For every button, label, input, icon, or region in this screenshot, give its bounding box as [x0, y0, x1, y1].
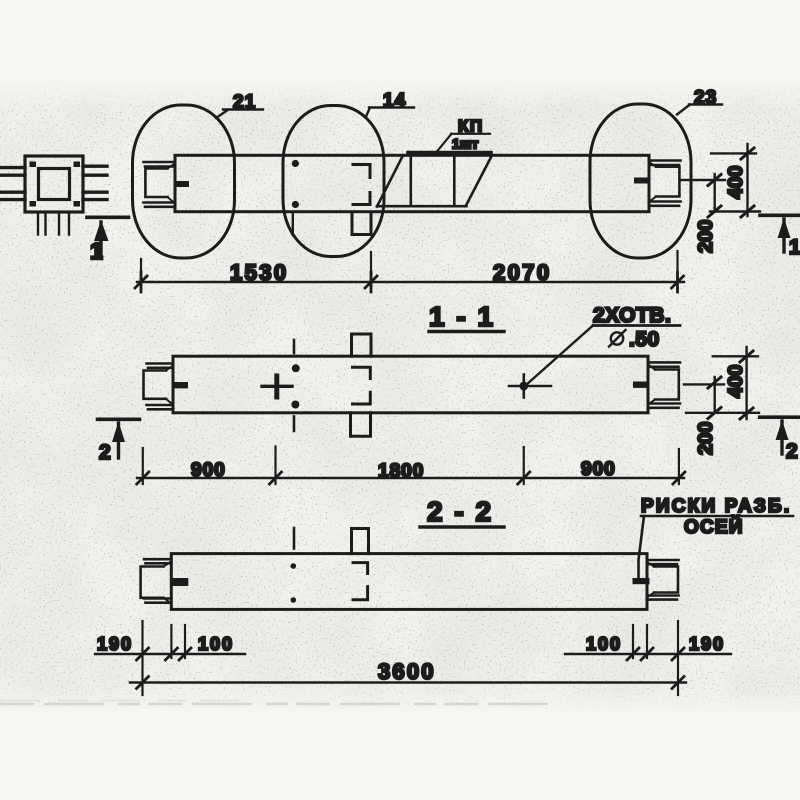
main extension left [141, 621, 143, 695]
svg-text:400: 400 [725, 365, 747, 398]
right riska tick (elevation) [634, 178, 649, 184]
1-1 tick at 678.9 [673, 472, 685, 484]
left lower flange lines [0, 192, 25, 199]
extension under oval21 [140, 259, 142, 288]
1-1 right joint taper lines [648, 365, 655, 405]
1-1 right joint socket [655, 370, 679, 400]
1-1 left riska tick [173, 382, 188, 388]
1-1 right joint flange bottom [648, 404, 680, 408]
section arrow 1 (left) head [94, 220, 109, 241]
dim line 200 (elevation) [714, 174, 716, 212]
svg-text:100: 100 [198, 634, 234, 654]
right joint taper lines [649, 162, 656, 202]
svg-text:2: 2 [786, 440, 798, 463]
upper dim line left segment [95, 653, 245, 655]
1-1 section arrow 2 (left) head [112, 422, 125, 443]
1-1 tick at 142.8 [137, 472, 149, 484]
2-2 left riska tick [171, 578, 188, 586]
svg-text:1800: 1800 [378, 461, 424, 482]
1-1 section cut line 2 (left) [98, 417, 140, 421]
2-2 axis tick above beam [293, 528, 296, 549]
KP flag bar [408, 151, 491, 155]
right joint flange bottom [649, 202, 681, 206]
tick slashes 400 (elevation) [741, 148, 754, 217]
riski leader [639, 516, 645, 577]
svg-text:14: 14 [383, 91, 406, 112]
dim line 3600 [130, 681, 686, 683]
1-1 axis tick above beam [293, 340, 296, 353]
1-1 dashed embed bracket [353, 367, 371, 404]
extension top (400) [711, 152, 756, 154]
1-1 right joint flange top [648, 362, 680, 366]
1-1 tick at 275.5 [270, 472, 282, 484]
1-1 bottom dim line [137, 477, 684, 479]
1-1 lifting loop below [351, 413, 371, 437]
svg-text:190: 190 [689, 634, 725, 654]
section arrow 1 (right) shaft [782, 219, 785, 252]
svg-text:КП: КП [458, 117, 484, 136]
svg-text:2ХОТВ.: 2ХОТВ. [593, 304, 671, 327]
2-2 left joint flange bottom [144, 599, 171, 603]
2-2 lifting loop above [352, 529, 369, 554]
section arrow 1 (left) shaft [99, 222, 102, 258]
dim line 1530/2070 [137, 281, 684, 283]
left leg below [38, 212, 46, 235]
main extension right [677, 621, 679, 695]
extension under oval14 [370, 252, 372, 288]
column cross-section inner square [39, 169, 70, 200]
svg-text:1530: 1530 [230, 260, 289, 285]
beam outline (section 2-2) [171, 554, 647, 610]
label 23 leader [677, 105, 722, 115]
right leg below [59, 212, 69, 235]
left upper flange lines [0, 168, 25, 176]
scan streak bottom-left faint upper [0, 700, 250, 702]
svg-text:3600: 3600 [378, 659, 436, 684]
2-2 left joint socket [141, 567, 164, 598]
small tick extensions right pair [633, 625, 647, 658]
title 2-2 underline [420, 525, 504, 528]
2-2 right joint flange top [647, 560, 679, 564]
1-1 section arrow 2 (right) shaft [780, 421, 783, 454]
svg-text:21: 21 [233, 92, 256, 113]
1-1 bottom dim extensions [143, 447, 679, 485]
corner rebar dot bottom-right [74, 201, 81, 207]
KP flag leader [436, 134, 491, 153]
svg-text:1: 1 [90, 238, 103, 264]
1-1 extension bottom [686, 412, 759, 414]
1-1 right dims: extension top [713, 355, 758, 357]
2-2 left joint taper lines [164, 562, 172, 604]
svg-text:.50: .50 [629, 328, 660, 351]
tick at 371 [365, 272, 377, 292]
1-1 left joint flange top [147, 364, 174, 368]
holes note diameter symbol [611, 332, 623, 344]
embed dots in oval 14 [292, 160, 299, 167]
slashes upper dim left [137, 648, 192, 660]
svg-text:400: 400 [725, 166, 747, 199]
detail oval 14 [283, 106, 384, 257]
1-1 hole cross marker [509, 385, 551, 388]
svg-text:1шт: 1шт [452, 136, 478, 152]
tick at 677.5 [672, 272, 684, 292]
1-1 axis tick below beam [293, 417, 296, 432]
riski note underline [641, 515, 793, 518]
extension mid (200) [681, 179, 725, 181]
svg-text:2: 2 [99, 441, 111, 464]
right joint socket [656, 167, 679, 197]
extension bottom [710, 210, 760, 212]
section arrow 1 (right) head [778, 218, 791, 238]
svg-text:ОСЕЙ: ОСЕЙ [684, 516, 744, 538]
title 1-1 underline [429, 330, 504, 333]
svg-text:23: 23 [694, 88, 717, 109]
dashed embed bracket (elevation) [353, 165, 370, 205]
left joint taper lines [168, 164, 176, 204]
beam outline (elevation) [175, 155, 649, 211]
holes leader [526, 326, 593, 386]
ground line right (elevation) [760, 214, 800, 218]
svg-text:2070: 2070 [493, 260, 552, 285]
detail oval 21 [133, 105, 235, 258]
svg-text:900: 900 [191, 460, 226, 481]
section cut line 1 (left) [87, 216, 129, 220]
corner rebar dot top-left [30, 162, 37, 168]
2-2 left joint flange top [144, 559, 171, 563]
right upper flange lines [83, 166, 107, 175]
scan speckle noise [0, 80, 800, 715]
corner rebar dot bottom-left [30, 201, 37, 207]
right lower flange lines [83, 192, 107, 199]
small tick extensions left pair [171, 625, 185, 658]
1-1 embed dots [292, 364, 300, 372]
extension under oval23 [676, 251, 678, 288]
scan streak bottom-left [0, 703, 560, 705]
1-1 ground line right [760, 415, 800, 419]
2-2 right joint flange bottom [647, 596, 679, 600]
dim line 400 (elevation) [746, 144, 748, 216]
corner rebar dot top-right [74, 162, 81, 168]
axis tick below beam (elevation) [292, 214, 294, 236]
column cross-section outer square [25, 156, 83, 212]
1-1 dim line 400 [745, 347, 747, 419]
riski mark thick bar [633, 578, 650, 584]
1-1 dim line 200 [714, 377, 716, 413]
label 14 leader [366, 108, 414, 117]
right joint flange top [649, 161, 681, 166]
1-1 tick slashes 200 [708, 377, 721, 419]
svg-text:1 - 1: 1 - 1 [429, 301, 495, 332]
svg-text:190: 190 [97, 634, 133, 654]
left riska tick (elevation) [175, 181, 189, 187]
left joint socket [145, 168, 167, 197]
1-1 tick at 523.75 [518, 472, 530, 484]
svg-text:2 - 2: 2 - 2 [427, 496, 493, 527]
tick slashes 200 (elevation) [708, 175, 721, 218]
svg-text:100: 100 [586, 634, 622, 654]
2-2 dashed embed bracket [353, 563, 368, 600]
lifting loop below beam (elevation) [352, 212, 371, 235]
slashes 3600 [137, 677, 685, 689]
tick at 141 [135, 272, 147, 292]
detail oval 23 [590, 104, 691, 258]
1-1 extension mid [684, 383, 724, 385]
scan blotch shading [0, 80, 800, 715]
1-1 left joint socket [144, 371, 167, 399]
2-2 embed dots [291, 563, 297, 569]
1-1 lifting loop above [352, 334, 372, 356]
svg-text:900: 900 [581, 459, 616, 480]
1-1 tick slashes 400 [740, 351, 753, 419]
label 21 leader [216, 110, 263, 119]
1-1 section arrow 2 (right) head [776, 420, 789, 440]
2-2 right joint taper lines [647, 562, 654, 598]
slashes upper dim right [627, 648, 684, 660]
svg-text:200: 200 [695, 422, 717, 455]
svg-text:РИСКИ РАЗБ.: РИСКИ РАЗБ. [641, 496, 791, 517]
svg-text:1: 1 [789, 236, 800, 259]
1-1 left joint flange bottom [147, 405, 174, 409]
holes note underline [593, 324, 680, 327]
KP plate parallelogram [377, 155, 492, 206]
left joint flange top [144, 162, 176, 167]
svg-text:200: 200 [695, 220, 717, 253]
beam outline (section 1-1) [173, 356, 648, 413]
1-1 section arrow 2 (left) shaft [117, 423, 120, 458]
upper dim line right segment [565, 653, 731, 655]
left joint flange bottom [144, 203, 176, 207]
1-1 left joint taper lines [166, 366, 173, 406]
1-1 right riska tick [633, 382, 648, 388]
2-2 right joint socket [654, 567, 678, 593]
1-1 center cross marker [262, 385, 292, 388]
